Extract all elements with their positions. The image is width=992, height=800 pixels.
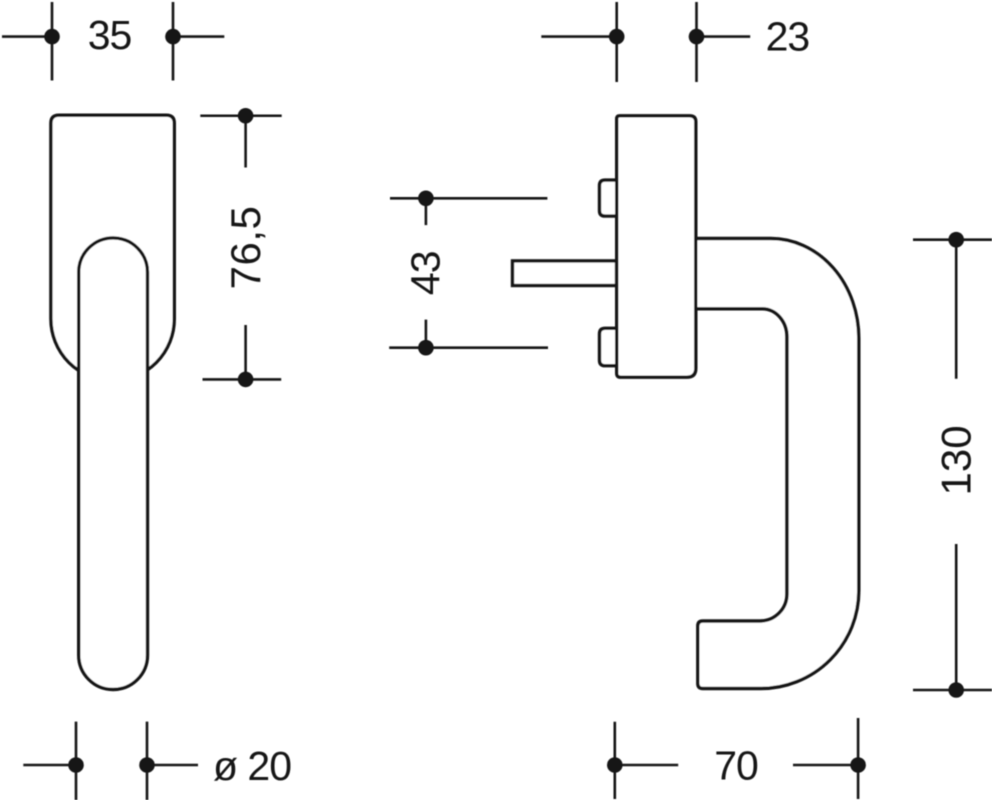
dim dia20: extension line right [146, 722, 149, 800]
dim 35: dimension line left segment [2, 35, 52, 38]
dim 76,5: vertical segment lower [244, 325, 247, 379]
spindle square bar, side view [513, 261, 617, 286]
dim 35: extension line right [172, 2, 175, 81]
svg-text:23: 23 [766, 13, 810, 59]
dim 76,5: dimension line top tick [200, 114, 281, 117]
dim 130: vertical segment lower [955, 544, 958, 690]
dim 76,5: dimension line bottom tick [203, 378, 282, 381]
dim 70: dimension line left segment [615, 764, 678, 767]
dim 70: extension line right [857, 718, 860, 799]
svg-text:ø 20: ø 20 [213, 743, 291, 789]
svg-text:35: 35 [88, 12, 132, 58]
dim dia20: extension line left [75, 722, 78, 800]
dim 43: dot bottom [418, 340, 434, 356]
dim 130: vertical segment upper [955, 240, 958, 379]
dim 70: dot left [607, 757, 623, 773]
handle neck and grip, side view [696, 239, 859, 689]
dim 130: dot bottom [948, 682, 964, 698]
dim 35: extension line left [51, 2, 54, 81]
dim 70: dimension line right segment [793, 764, 858, 767]
dim 35: dimension line right segment [173, 35, 224, 38]
dim 35: dot left [44, 29, 60, 45]
dim 43: vertical segment lower [425, 320, 428, 348]
dim 23: dimension line left segment [541, 35, 616, 38]
dim 70: extension line left [613, 722, 616, 799]
screw bump bottom, side view [600, 328, 617, 365]
dim 23: dot right [689, 29, 705, 45]
dim 23: dot left [609, 29, 625, 45]
svg-text:43: 43 [403, 251, 449, 295]
dim 43: dot top [418, 191, 434, 207]
dim 43: vertical segment upper [425, 198, 428, 225]
dim 76,5: dot top [238, 108, 254, 124]
dim 23: extension line left [615, 2, 618, 82]
dim 43: extension line top [390, 197, 547, 200]
dim 23: dimension line right segment [697, 35, 751, 38]
svg-text:76,5: 76,5 [222, 206, 269, 290]
dim 43: extension line bottom [389, 346, 548, 349]
dim 76,5: dot bottom [238, 372, 254, 388]
handle grip, front view [79, 238, 148, 690]
rosette plate, side view [617, 116, 696, 377]
rosette plate, front view [51, 115, 174, 380]
dim 23: extension line right [695, 2, 698, 82]
dim 130: extension line bottom [913, 689, 992, 692]
dim dia20: dot left [68, 757, 84, 773]
svg-text:130: 130 [932, 425, 979, 495]
svg-text:70: 70 [714, 742, 758, 788]
dim 130: dot top [948, 232, 964, 248]
dim dia20: dimension line left segment [23, 764, 76, 767]
dim 70: dot right [850, 757, 866, 773]
screw bump top, side view [600, 180, 617, 216]
dim dia20: dot right [139, 757, 155, 773]
dim dia20: dimension line right segment [147, 764, 198, 767]
dim 35: dot right [165, 29, 181, 45]
dim 76,5: vertical segment upper [244, 116, 247, 168]
dim 130: extension line top [913, 238, 992, 241]
